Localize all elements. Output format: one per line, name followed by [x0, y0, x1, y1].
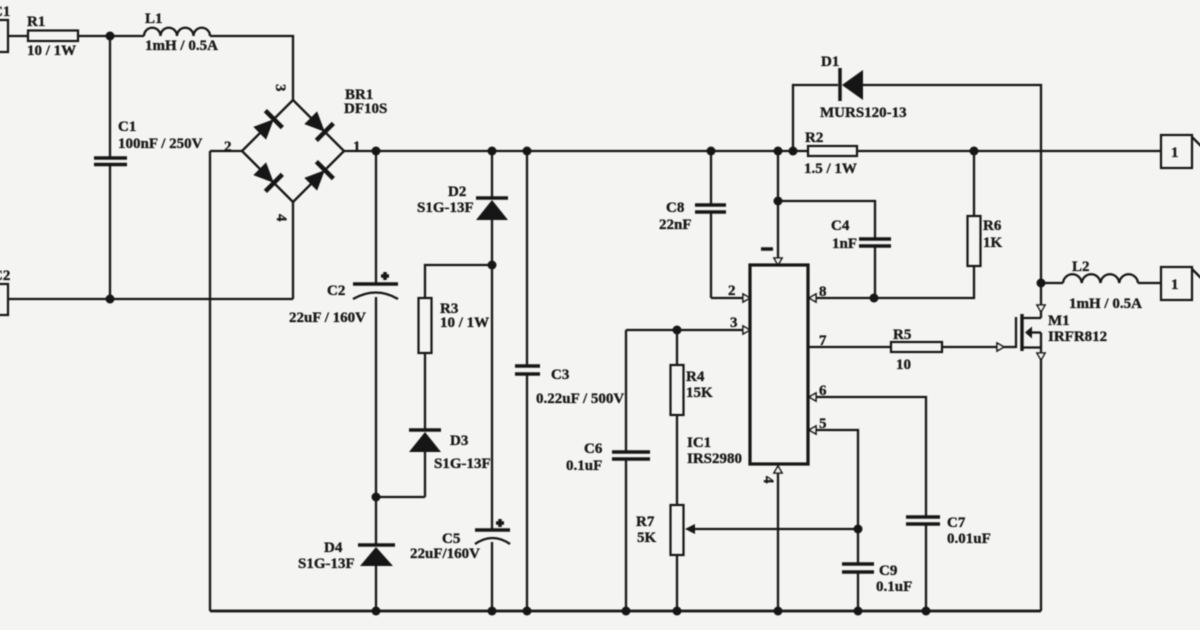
svg-text:10: 10	[896, 357, 911, 373]
capacitor C4	[778, 201, 891, 298]
svg-text:1: 1	[1171, 145, 1179, 161]
node: rail dot at C2	[372, 147, 381, 156]
wire R4 to R7	[676, 415, 678, 505]
resistor R6	[973, 151, 975, 216]
wire bridge pin 4 down	[292, 202, 294, 299]
svg-text:1mH / 0.5A: 1mH / 0.5A	[145, 38, 218, 54]
bottom rail	[210, 610, 1041, 613]
svg-text:S1G-13F: S1G-13F	[434, 456, 491, 472]
resistor R2	[808, 146, 857, 156]
wire pin 5	[808, 430, 858, 564]
svg-text:C1: C1	[118, 119, 136, 135]
svg-text:R5: R5	[893, 327, 911, 343]
svg-text:C2: C2	[327, 283, 345, 299]
svg-text:C3: C3	[551, 367, 569, 383]
svg-text:0.01uF: 0.01uF	[947, 531, 991, 547]
node: ground dot pin4	[774, 607, 783, 616]
svg-text:15K: 15K	[686, 385, 713, 401]
wire bridge pin 2 to AC2	[210, 150, 242, 152]
svg-text:MURS120-13: MURS120-13	[820, 105, 907, 121]
node: rail dot at C8	[707, 147, 716, 156]
node: ground dot R7	[673, 607, 682, 616]
svg-text:D3: D3	[450, 433, 468, 449]
wire R3 to D3	[424, 353, 426, 431]
output connector 1 (top)	[1161, 135, 1192, 168]
svg-text:0.1uF: 0.1uF	[876, 579, 912, 595]
node: D2 anode / R3	[488, 261, 497, 270]
node: VCC / C4 junction	[774, 197, 783, 206]
svg-text:C5: C5	[442, 531, 460, 547]
svg-text:1mH / 0.5A: 1mH / 0.5A	[1069, 296, 1142, 312]
node: pin3 / R4 junction	[673, 326, 682, 335]
input connector CN1 (top left, clipped)	[0, 20, 8, 52]
node: ground dot C3	[523, 607, 532, 616]
svg-text:L2: L2	[1072, 259, 1090, 275]
node: ground dot C5	[488, 607, 497, 616]
svg-text:3: 3	[730, 315, 738, 331]
svg-text:C2: C2	[0, 268, 10, 284]
svg-text:22uF / 160V: 22uF / 160V	[289, 310, 366, 326]
svg-text:22uF/160V: 22uF/160V	[410, 546, 480, 562]
svg-text:R6: R6	[983, 218, 1002, 234]
svg-text:1.5 / 1W: 1.5 / 1W	[804, 161, 857, 177]
svg-text:C6: C6	[584, 441, 603, 457]
svg-text:IRFR812: IRFR812	[1048, 329, 1107, 345]
capacitor C1	[109, 36, 111, 158]
node: C2/D4/D3 junction	[372, 493, 381, 502]
svg-text:3: 3	[272, 84, 288, 92]
svg-text:2: 2	[728, 283, 736, 299]
transistor M1 (MOSFET)	[1004, 283, 1107, 611]
node: ground dot C2	[372, 607, 381, 616]
svg-text:4: 4	[273, 214, 289, 222]
svg-text:10 / 1W: 10 / 1W	[440, 315, 489, 331]
svg-text:IC1: IC1	[687, 435, 711, 451]
resistor R4	[676, 330, 678, 365]
wire CN1 to R1	[8, 35, 28, 37]
wire R5 to gate	[942, 346, 997, 348]
wire R1 to L1	[78, 35, 144, 37]
svg-text:0.1uF: 0.1uF	[566, 458, 602, 474]
output connector 2 (bottom)	[1161, 267, 1192, 300]
svg-text:1K: 1K	[983, 235, 1003, 251]
svg-text:0.22uF / 500V: 0.22uF / 500V	[536, 391, 624, 407]
inductor L1	[144, 28, 210, 36]
svg-text:7: 7	[819, 333, 827, 349]
svg-text:4: 4	[760, 476, 776, 484]
svg-text:5K: 5K	[637, 530, 657, 546]
svg-text:5: 5	[819, 416, 827, 432]
wire VCC to IC top	[777, 151, 779, 262]
wire pin 3	[626, 329, 744, 331]
svg-text:R2: R2	[805, 130, 823, 146]
resistor R1	[28, 31, 78, 42]
wire R7 to ground	[676, 555, 678, 611]
node: AC1/C1 junction	[106, 32, 115, 41]
DC+ rail from bridge pin 1	[344, 150, 808, 152]
node: ground dot C7	[922, 607, 931, 616]
svg-text:10 / 1W: 10 / 1W	[27, 43, 76, 59]
svg-text:22nF: 22nF	[659, 217, 692, 233]
wire D2 to R3	[425, 265, 492, 298]
wire C8 to IC pin 2	[711, 297, 744, 299]
IC U1 IRS2980	[750, 265, 808, 464]
wire IC pin 4 to ground	[774, 466, 782, 473]
node: rail dot at VCC	[774, 147, 783, 156]
resistor R5	[891, 342, 942, 352]
wire D3 to C2/D4 node	[376, 496, 425, 498]
bridge rectifier BR1 DF10S	[224, 84, 387, 222]
svg-text:C8: C8	[666, 200, 684, 216]
svg-text:100nF / 250V: 100nF / 250V	[118, 136, 203, 152]
inductor L2	[1041, 282, 1063, 284]
diode D3	[409, 430, 491, 497]
capacitor C3	[515, 151, 624, 611]
node: rail dot at R6	[970, 147, 979, 156]
svg-text:8: 8	[819, 284, 827, 300]
wire L2 to output connector	[1138, 282, 1161, 284]
svg-text:6: 6	[819, 383, 827, 399]
svg-text:D2: D2	[448, 184, 466, 200]
svg-text:C9: C9	[879, 563, 897, 579]
capacitor C2 (electrolytic)	[289, 151, 398, 545]
svg-text:M1: M1	[1048, 313, 1070, 329]
svg-text:1: 1	[353, 139, 361, 155]
svg-text:R7: R7	[636, 514, 655, 530]
wire AC bottom	[8, 298, 293, 300]
diode D1	[793, 54, 1041, 283]
wire left vertical to bottom rail	[209, 151, 211, 611]
svg-text:C7: C7	[947, 515, 966, 531]
svg-text:DF10S: DF10S	[344, 101, 387, 117]
node: ground dot C9	[854, 607, 863, 616]
svg-text:R4: R4	[686, 369, 705, 385]
resistor R3	[419, 298, 432, 353]
svg-text:L1: L1	[145, 11, 163, 27]
capacitor C9	[842, 563, 912, 611]
svg-text:D4: D4	[324, 540, 343, 556]
wire R6 to IC pin 8	[816, 266, 974, 298]
node: pin8 / C4 junction	[870, 294, 879, 303]
node: AC2/C1 junction	[106, 295, 115, 304]
svg-text:D1: D1	[821, 54, 839, 70]
potentiometer R7	[671, 505, 684, 555]
svg-text:C4: C4	[831, 218, 850, 234]
node: ground dot C6	[622, 607, 631, 616]
node: rail dot at D1	[789, 147, 798, 156]
svg-text:2: 2	[224, 139, 232, 155]
input connector CN2 (bottom left, clipped)	[0, 284, 8, 315]
svg-text:R1: R1	[27, 14, 45, 30]
svg-text:1nF: 1nF	[832, 236, 857, 252]
capacitor C5 (electrolytic)	[410, 519, 510, 611]
capacitor C6	[566, 330, 650, 611]
capacitor C8	[659, 151, 726, 298]
wire L1 to bridge pin 3	[210, 36, 293, 100]
node: drain / L2 junction	[1037, 279, 1046, 288]
svg-text:S1G-13F: S1G-13F	[298, 556, 355, 572]
svg-text:1: 1	[1171, 277, 1179, 293]
svg-text:IRS2980: IRS2980	[687, 451, 742, 467]
wire pin 6	[808, 397, 926, 517]
node: rail dot at D2	[488, 147, 497, 156]
svg-text:C1: C1	[0, 4, 10, 20]
diode D2	[417, 151, 508, 530]
node: pin5 / R7 wiper junction	[854, 525, 863, 534]
svg-text:S1G-13F: S1G-13F	[417, 200, 474, 216]
wire pin 7	[808, 346, 891, 348]
capacitor C7	[906, 515, 991, 611]
diode D4	[298, 540, 395, 611]
node: rail dot at C3	[523, 147, 532, 156]
